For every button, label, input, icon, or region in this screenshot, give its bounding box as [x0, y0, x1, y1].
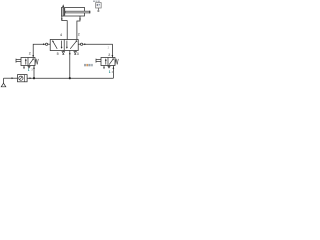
counter / indicator widget top right [96, 3, 102, 12]
flow arrow into port 2 [112, 55, 114, 57]
svg-text:2: 2 [108, 53, 110, 57]
svg-text:2: 2 [108, 46, 110, 50]
wire source to service unit [4, 77, 18, 79]
flow arrow [69, 52, 71, 54]
air service unit 0Z2 [18, 75, 28, 82]
supply rail wire [27, 77, 113, 79]
svg-text:1: 1 [109, 70, 111, 74]
flow arrow [43, 43, 45, 45]
svg-text:2: 2 [78, 33, 80, 37]
port 3 stub [103, 66, 105, 69]
exhaust [28, 66, 30, 69]
component label 2B? (tiny multicolour text) [84, 64, 93, 66]
flow arrow [30, 77, 32, 79]
compressed air source 0Z1 [1, 78, 6, 87]
exhaust [108, 66, 110, 69]
push button actuator [96, 59, 101, 63]
wire left pilot line from valve 1S1 port 2 [33, 44, 45, 57]
port 3 stub [23, 66, 25, 69]
exhaust port 3 [74, 51, 77, 55]
wire valve port 1 to supply rail [69, 51, 71, 79]
junction [69, 77, 71, 79]
flow arrow on wire [79, 17, 81, 19]
widget label text [93, 1, 100, 2]
wire port 1 to supply rail [112, 66, 114, 79]
flow arrow into port 2 [32, 55, 34, 57]
svg-text:1: 1 [28, 68, 30, 72]
exhaust port 5 [62, 51, 65, 55]
junction [33, 77, 35, 79]
valve 1V1 5/2-way double pilot [50, 40, 78, 51]
svg-text:5: 5 [57, 52, 59, 56]
wire cylinder right port to valve port 2 [77, 16, 80, 40]
svg-text:4: 4 [60, 33, 62, 37]
wire cylinder left port to valve port 4 [62, 16, 67, 40]
flow arrow on wire [61, 17, 63, 19]
push button actuator [16, 59, 21, 63]
piston position marker arrow [62, 4, 64, 7]
wire right pilot line to valve 1S2 port 2 [83, 44, 113, 57]
valve 1S1 3/2-way push button [21, 58, 35, 66]
cylinder 1A1 (double-acting) [62, 8, 90, 17]
return spring [35, 59, 38, 65]
valve 1S2 3/2-way push button [101, 58, 115, 66]
svg-text:3: 3 [77, 52, 79, 56]
pilot port 14 circle [46, 43, 48, 45]
flow arrow [84, 43, 86, 45]
svg-text:3: 3 [31, 68, 33, 72]
return spring [115, 59, 118, 65]
wire port 1 to supply rail [33, 66, 35, 79]
pilot port 12 circle [81, 43, 83, 45]
svg-text:2: 2 [29, 51, 31, 55]
flow arrow [12, 77, 14, 79]
